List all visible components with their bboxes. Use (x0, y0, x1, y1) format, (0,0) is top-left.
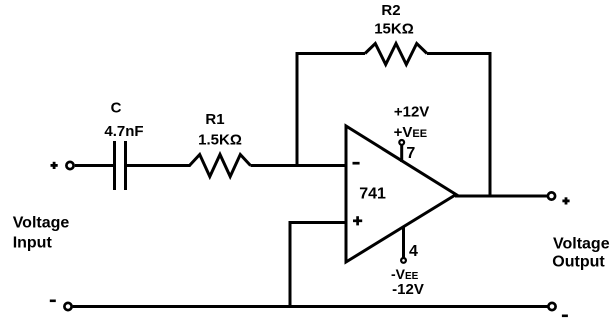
resistor R2 (365, 44, 427, 65)
svg-text:+12V: +12V (394, 104, 429, 121)
svg-text:1.5KΩ: 1.5KΩ (198, 132, 242, 149)
wire feedback top left (296, 52, 366, 55)
wire non-inverting input horizontal (289, 221, 347, 224)
input terminal (66, 162, 73, 169)
op-amp U1 741 triangle (346, 126, 456, 262)
wire R1 to inverting input (node A) (251, 164, 347, 167)
wire feedback right vertical to output node (489, 52, 492, 196)
output terminal (548, 192, 555, 199)
svg-text:7: 7 (406, 145, 415, 162)
svg-text:Output: Output (552, 253, 605, 270)
op-amp inverting input marker - (353, 162, 360, 165)
wire feedback left vertical (junction at node A) (296, 52, 299, 167)
capacitor C (115, 141, 126, 190)
bottom right polarity - (562, 314, 568, 317)
wire input terminal to capacitor C (75, 164, 113, 167)
bottom left polarity - (50, 299, 56, 302)
wire non-inverting input vertical to bottom rail (289, 221, 292, 308)
Voltage Output label (552, 236, 609, 271)
svg-text:C: C (111, 100, 122, 117)
pin 7 terminal (399, 140, 404, 145)
wire feedback top right (427, 52, 492, 55)
svg-text:R1: R1 (205, 111, 224, 128)
pin 4 terminal (401, 258, 406, 263)
pin 7 lead (400, 145, 403, 162)
resistor R1 (190, 155, 251, 177)
svg-text:Input: Input (13, 234, 53, 251)
Voltage Input label (13, 214, 70, 251)
bottom right terminal (548, 303, 555, 310)
svg-text:4: 4 (409, 243, 418, 260)
svg-text:Voltage: Voltage (13, 214, 70, 231)
input polarity + (51, 162, 58, 169)
svg-text:4.7nF: 4.7nF (104, 123, 143, 140)
wire bottom rail (73, 305, 548, 308)
bottom left terminal (64, 303, 71, 310)
op-amp non-inverting input marker + (353, 216, 362, 225)
svg-text:-12V: -12V (392, 281, 424, 298)
wire op-amp output to terminal (455, 195, 547, 198)
output polarity + (562, 197, 569, 204)
wire C to R1 (127, 164, 191, 167)
svg-text:741: 741 (359, 186, 386, 203)
svg-text:Voltage: Voltage (553, 236, 610, 253)
pin 4 lead (402, 227, 405, 258)
svg-text:R2: R2 (381, 2, 400, 19)
svg-text:15KΩ: 15KΩ (374, 21, 414, 38)
